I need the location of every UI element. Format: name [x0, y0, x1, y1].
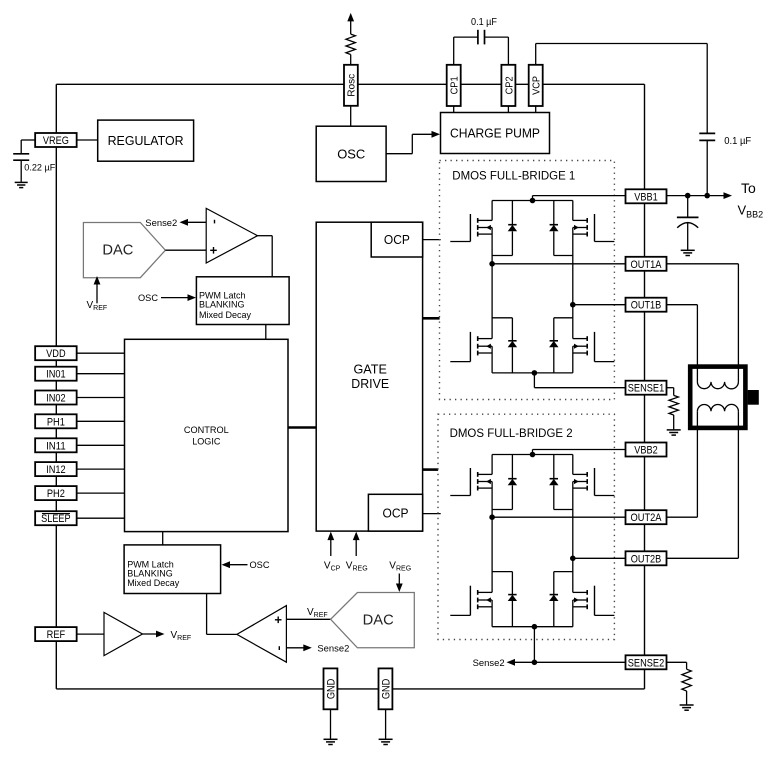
svg-text:OSC: OSC — [250, 560, 270, 571]
svg-text:Rosc: Rosc — [346, 74, 358, 97]
wire VREG to 0.22uF capacitor — [21, 140, 35, 153]
motor load box — [690, 367, 759, 428]
wire bridge 1 right leg — [570, 256, 576, 339]
wire chip top border — [56, 83, 644, 85]
svg-text:VREG: VREG — [43, 135, 69, 147]
wire IN01 to control logic — [77, 373, 125, 375]
wire DAC2 to comparator A2 plus input with VREF label — [286, 607, 330, 619]
svg-text:DAC: DAC — [102, 242, 133, 258]
capacitor 0.22uF — [13, 154, 55, 182]
wire OUT1A node to OUT1A pin — [492, 263, 625, 265]
wire PWM latch 2 to comparator A2 — [207, 594, 237, 635]
pin VCP — [529, 65, 543, 106]
pin VREG — [35, 133, 77, 147]
svg-text:CONTROL: CONTROL — [184, 425, 229, 436]
wire IN12 to control logic — [77, 468, 125, 470]
svg-text:OCP: OCP — [383, 507, 409, 521]
svg-text:OUT2A: OUT2A — [631, 512, 663, 524]
svg-text:OSC: OSC — [337, 147, 365, 162]
diode body diode Q22 — [549, 455, 573, 510]
wire OUT1B to motor — [667, 305, 698, 382]
svg-text:GND: GND — [381, 679, 393, 700]
svg-text:OUT1B: OUT1B — [631, 300, 662, 312]
svg-text:SENSE1: SENSE1 — [628, 383, 665, 395]
pin CP2 — [501, 65, 515, 106]
arrow VREF into DAC1 bottom — [94, 276, 101, 303]
ground below sense resistor 1 — [667, 430, 681, 435]
bus control logic to gate drive — [288, 426, 316, 429]
pin PH1 — [35, 414, 77, 428]
svg-text:VBB2: VBB2 — [634, 444, 658, 456]
wire comparator A1 output to PWM latch 1 — [258, 236, 273, 277]
wire PH1 to control logic — [77, 420, 125, 422]
svg-text:OUT2B: OUT2B — [631, 553, 662, 565]
pin OUT2A — [626, 510, 667, 524]
wire REF to buffer — [77, 633, 104, 635]
svg-text:BLANKING: BLANKING — [199, 300, 245, 310]
bus gate drive to bridge 1 — [423, 317, 440, 320]
pin VDD — [35, 346, 77, 360]
transistor Q22 high-side right — [573, 455, 615, 510]
pin OUT1B — [626, 298, 667, 312]
svg-text:To: To — [741, 180, 756, 196]
svg-text:CP2: CP2 — [503, 76, 515, 94]
capacitor 0.1uF VCP reservoir — [699, 133, 751, 195]
diode body diode Q21 — [492, 455, 517, 510]
svg-text:GATE: GATE — [354, 362, 388, 377]
svg-text:GND: GND — [326, 679, 338, 700]
svg-text:SLEEP: SLEEP — [41, 513, 71, 525]
block OCP top — [371, 222, 422, 257]
wire bridge 2 to VBB2 — [530, 450, 626, 458]
block CONTROL LOGIC — [125, 339, 289, 531]
wire Rosc pin to OSC box — [350, 106, 352, 126]
ground below GND 2 — [379, 739, 393, 744]
ground below GND 1 — [324, 739, 338, 744]
wire bridge 2 to SENSE2 junction — [532, 624, 538, 662]
pin Rosc — [344, 65, 358, 106]
svg-text:Sense2: Sense2 — [473, 658, 505, 669]
block REGULATOR — [98, 120, 194, 161]
transistor Q23 low-side left — [450, 586, 492, 627]
diode body diode Q12 — [549, 201, 573, 256]
wire PH2 to control logic — [77, 492, 125, 494]
svg-text:IN02: IN02 — [46, 392, 66, 404]
ground below 0.22uF capacitor — [15, 182, 28, 187]
svg-text:LOGIC: LOGIC — [192, 437, 220, 448]
wire OCP top output to bridge 1 — [423, 239, 441, 241]
svg-text:REF: REF — [47, 629, 66, 641]
svg-text:VDD: VDD — [46, 348, 66, 360]
wire bridge 1 bottom rail — [492, 372, 573, 374]
wire Sense2 arrow to comparator A1 minus input — [145, 218, 206, 229]
diode body diode Q14 — [549, 318, 573, 373]
label VCP with arrow into gate drive — [324, 532, 341, 573]
diode body diode Q23 — [492, 572, 517, 627]
wire zigzag to Rosc pin — [350, 55, 352, 65]
wire chip bottom border — [56, 688, 644, 690]
pin CP1 — [447, 65, 461, 106]
svg-text:IN12: IN12 — [46, 464, 66, 476]
wire bridge 1 to SENSE1 — [532, 370, 626, 388]
diode body diode Q24 — [549, 572, 573, 627]
ground below sense resistor 2 — [680, 705, 694, 710]
wire SLEEP to control logic — [77, 517, 125, 519]
svg-text:CHARGE PUMP: CHARGE PUMP — [450, 126, 540, 141]
wire DAC1 to comparator A1 plus input — [165, 249, 206, 251]
resistor Rosc external zigzag — [346, 34, 355, 54]
wire control logic to PWM latch 2 — [162, 532, 164, 545]
wire OCP bottom output to bridge 2 — [423, 513, 441, 515]
wire GND 2 to ground — [385, 709, 387, 739]
pin IN11 — [35, 438, 77, 452]
label VREG with arrow into gate drive — [346, 532, 368, 573]
svg-text:0.1 µF: 0.1 µF — [724, 136, 751, 147]
wire bridge 2 top rail — [492, 454, 573, 456]
wire OUT2A node to OUT2A pin — [492, 516, 625, 518]
wire OUT2B node to OUT2B pin — [573, 557, 626, 559]
ground below bulk capacitor — [681, 250, 695, 255]
arrow up from Rosc resistor — [347, 13, 354, 34]
block GATE DRIVE — [316, 222, 422, 531]
pin VBB2 — [626, 443, 667, 457]
svg-text:0.22 µF: 0.22 µF — [24, 162, 55, 173]
wire OUT1A to motor — [667, 264, 739, 382]
transistor Q24 low-side right — [573, 586, 615, 627]
svg-text:PH2: PH2 — [47, 488, 65, 500]
svg-text:REGULATOR: REGULATOR — [108, 133, 184, 148]
block OSC — [316, 126, 386, 181]
pin REF — [35, 627, 77, 641]
svg-text:VBB1: VBB1 — [634, 191, 658, 203]
svg-text:Sense2: Sense2 — [317, 643, 349, 654]
op-amp comparator A2 — [237, 606, 287, 663]
transistor Q21 high-side left — [450, 455, 492, 510]
svg-text:0.1 µF: 0.1 µF — [471, 17, 497, 28]
wire SENSE2 pin to Sense2 label — [473, 658, 626, 669]
block PWM latch 1 BLANKING Mixed Decay — [196, 277, 289, 325]
bus gate drive to bridge 2 — [423, 468, 439, 471]
transistor Q14 low-side right — [573, 332, 615, 373]
svg-text:DRIVE: DRIVE — [351, 376, 389, 391]
wire chip right border — [644, 84, 646, 689]
svg-text:Mixed Decay: Mixed Decay — [127, 578, 180, 588]
wire VCP to top-right 0.1uF capacitor — [536, 44, 708, 134]
wire VCP to charge pump — [535, 106, 537, 113]
capacitor 0.1uF between CP1 and CP2 — [454, 17, 509, 65]
wire bridge 1 to VBB1 — [530, 196, 626, 204]
pin IN01 — [35, 367, 77, 381]
label OSC with arrow into PWM latch 1 — [138, 293, 196, 304]
block OCP bottom — [368, 494, 422, 531]
pin IN02 — [35, 391, 77, 405]
dotted box DMOS FULL-BRIDGE 2 — [438, 414, 614, 639]
block CHARGE PUMP — [441, 113, 550, 154]
pin GND 1 — [324, 668, 338, 709]
label VREF into DAC1 — [87, 300, 108, 312]
svg-text:OSC: OSC — [138, 293, 158, 304]
svg-text:IN11: IN11 — [46, 440, 66, 452]
wire bridge 1 left leg — [489, 256, 495, 339]
svg-text:VCP: VCP — [531, 76, 543, 95]
svg-text:SENSE2: SENSE2 — [628, 657, 665, 669]
dotted box DMOS FULL-BRIDGE 1 — [440, 161, 615, 400]
wire bridge 2 right leg — [570, 510, 576, 593]
wire OUT1B node to OUT1B pin — [573, 304, 626, 306]
capacitor bulk electrolytic at VBB1 — [677, 196, 699, 250]
block PWM latch 2 BLANKING Mixed Decay — [124, 545, 221, 594]
wire OUT2B to motor — [667, 411, 739, 558]
label VREG with arrow into DAC2 — [389, 561, 411, 593]
wire IN02 to control logic — [77, 397, 125, 399]
svg-text:DAC: DAC — [363, 613, 394, 629]
wire buffer output to VREF label — [143, 630, 192, 642]
transistor Q12 high-side right — [573, 201, 615, 256]
dac U-DAC2 pentagon — [331, 593, 415, 648]
resistor sense 2 — [667, 662, 692, 704]
wire VDD to control logic — [77, 352, 125, 354]
svg-text:OCP: OCP — [384, 233, 410, 247]
dac U-DAC1 pentagon — [83, 223, 165, 278]
svg-text:CP1: CP1 — [449, 76, 461, 94]
pin GND 2 — [379, 668, 393, 709]
wire bridge 1 top rail — [492, 200, 573, 202]
wire CP2 to charge pump — [507, 106, 509, 113]
svg-text:DMOS FULL-BRIDGE 2: DMOS FULL-BRIDGE 2 — [450, 428, 573, 440]
op-amp comparator A1 — [206, 208, 257, 263]
pin PH2 — [35, 486, 77, 500]
svg-text:PH1: PH1 — [47, 416, 65, 428]
wire GND 1 to ground — [330, 709, 332, 739]
svg-text:Sense2: Sense2 — [145, 218, 177, 229]
wire comparator A2 minus to Sense2 label — [286, 643, 349, 654]
pin SENSE2 — [626, 655, 667, 669]
inductor motor winding 1 — [697, 382, 738, 389]
label OSC with arrow into PWM latch 2 — [222, 560, 270, 571]
wire chip left border — [55, 84, 57, 689]
svg-text:OUT1A: OUT1A — [631, 259, 663, 271]
inductor motor winding 2 — [697, 404, 738, 411]
transistor Q11 high-side left — [450, 201, 492, 256]
pin VBB1 — [626, 189, 667, 203]
svg-text:Mixed Decay: Mixed Decay — [199, 310, 252, 320]
svg-text:IN01: IN01 — [46, 369, 66, 381]
wire CP1 to charge pump — [453, 106, 455, 113]
wire VREG to regulator — [77, 139, 98, 141]
resistor sense 1 — [667, 388, 679, 430]
pin OUT1A — [626, 257, 667, 271]
wire bridge 2 left leg — [489, 510, 495, 593]
wire bridge 2 bottom rail — [492, 626, 573, 628]
wire IN11 to control logic — [77, 444, 125, 446]
label To VBB2 — [738, 180, 764, 220]
svg-text:DMOS FULL-BRIDGE 1: DMOS FULL-BRIDGE 1 — [452, 171, 575, 183]
wire OUT2A to motor — [667, 411, 698, 517]
wire PWM latch 1 to control logic — [265, 325, 267, 340]
diode body diode Q11 — [492, 201, 517, 256]
pin OUT2B — [626, 551, 667, 565]
wire OSC to charge pump with arrow — [386, 131, 440, 154]
pin SLEEP active low — [35, 511, 77, 525]
pin SENSE1 — [626, 381, 667, 395]
op-amp buffer A3 — [104, 612, 143, 655]
wire VBB1 to To VBB2 arrow — [667, 192, 733, 199]
pin IN12 — [35, 462, 77, 476]
diode body diode Q13 — [492, 318, 517, 373]
transistor Q13 low-side left — [450, 332, 492, 373]
